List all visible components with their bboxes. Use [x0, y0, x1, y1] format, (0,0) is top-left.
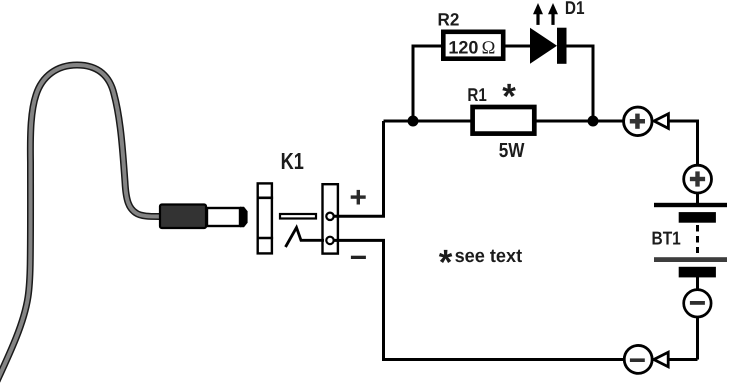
wire top right corner	[668, 121, 697, 170]
K1 terminal pin 1	[326, 213, 333, 220]
K1 center pin contact	[280, 214, 316, 219]
wire D1 to node	[566, 46, 593, 121]
K1 terminal pin 2	[326, 237, 333, 244]
junction node right	[588, 116, 599, 127]
wire mains cable	[0, 65, 159, 381]
note asterisk see text	[439, 243, 523, 282]
terminal circle minus bottom	[624, 345, 652, 373]
wire main top rail	[384, 120, 638, 123]
svg-text:R2: R2	[438, 10, 460, 30]
wire K1 plus to main node	[334, 121, 384, 216]
battery minus terminal	[684, 290, 711, 317]
LED D1 triangle	[530, 28, 557, 64]
wire battery minus to bottom rail	[696, 318, 699, 360]
battery dashed cells	[696, 225, 699, 253]
K1 terminal block	[323, 184, 338, 253]
arrowhead top	[654, 114, 668, 129]
battery pole bar top	[679, 212, 716, 223]
resistor R2	[443, 32, 503, 59]
battery plate plus	[654, 203, 727, 207]
label plus at K1	[351, 190, 366, 205]
value 120 ohm	[448, 38, 495, 59]
wire R2 branch left	[413, 46, 441, 121]
junction node left	[408, 116, 419, 127]
svg-text:K1: K1	[281, 148, 304, 174]
plug tip	[240, 207, 248, 227]
svg-text:R1: R1	[467, 84, 486, 105]
battery plus terminal	[684, 165, 712, 193]
svg-text:D1: D1	[565, 0, 585, 18]
svg-text:120: 120	[448, 38, 478, 58]
battery plate minus	[654, 257, 727, 262]
LED light arrow 2	[548, 3, 558, 25]
wire battery plus stub	[696, 194, 699, 204]
svg-text:Ω: Ω	[482, 39, 496, 59]
svg-text:5W: 5W	[499, 140, 525, 162]
LED light arrow 1	[533, 3, 543, 25]
arrowhead bottom	[654, 352, 668, 366]
LED D1 cathode bar	[557, 28, 567, 64]
wire R2 to D1	[505, 45, 531, 48]
svg-text:*: *	[439, 243, 453, 282]
plug barrel	[207, 208, 240, 226]
svg-text:see text: see text	[455, 246, 523, 267]
label minus at K1	[351, 256, 366, 259]
wire K1 minus to bottom rail	[334, 240, 698, 359]
wire battery minus stub	[696, 277, 699, 290]
K1 switch contact	[286, 228, 325, 248]
battery pole bar bottom	[679, 267, 716, 278]
terminal circle plus top	[624, 107, 653, 136]
svg-text:*: *	[502, 77, 516, 116]
plug body	[160, 205, 206, 229]
connector K1 socket sleeve	[257, 183, 274, 253]
resistor R1	[473, 107, 535, 134]
svg-text:BT1: BT1	[652, 227, 681, 248]
